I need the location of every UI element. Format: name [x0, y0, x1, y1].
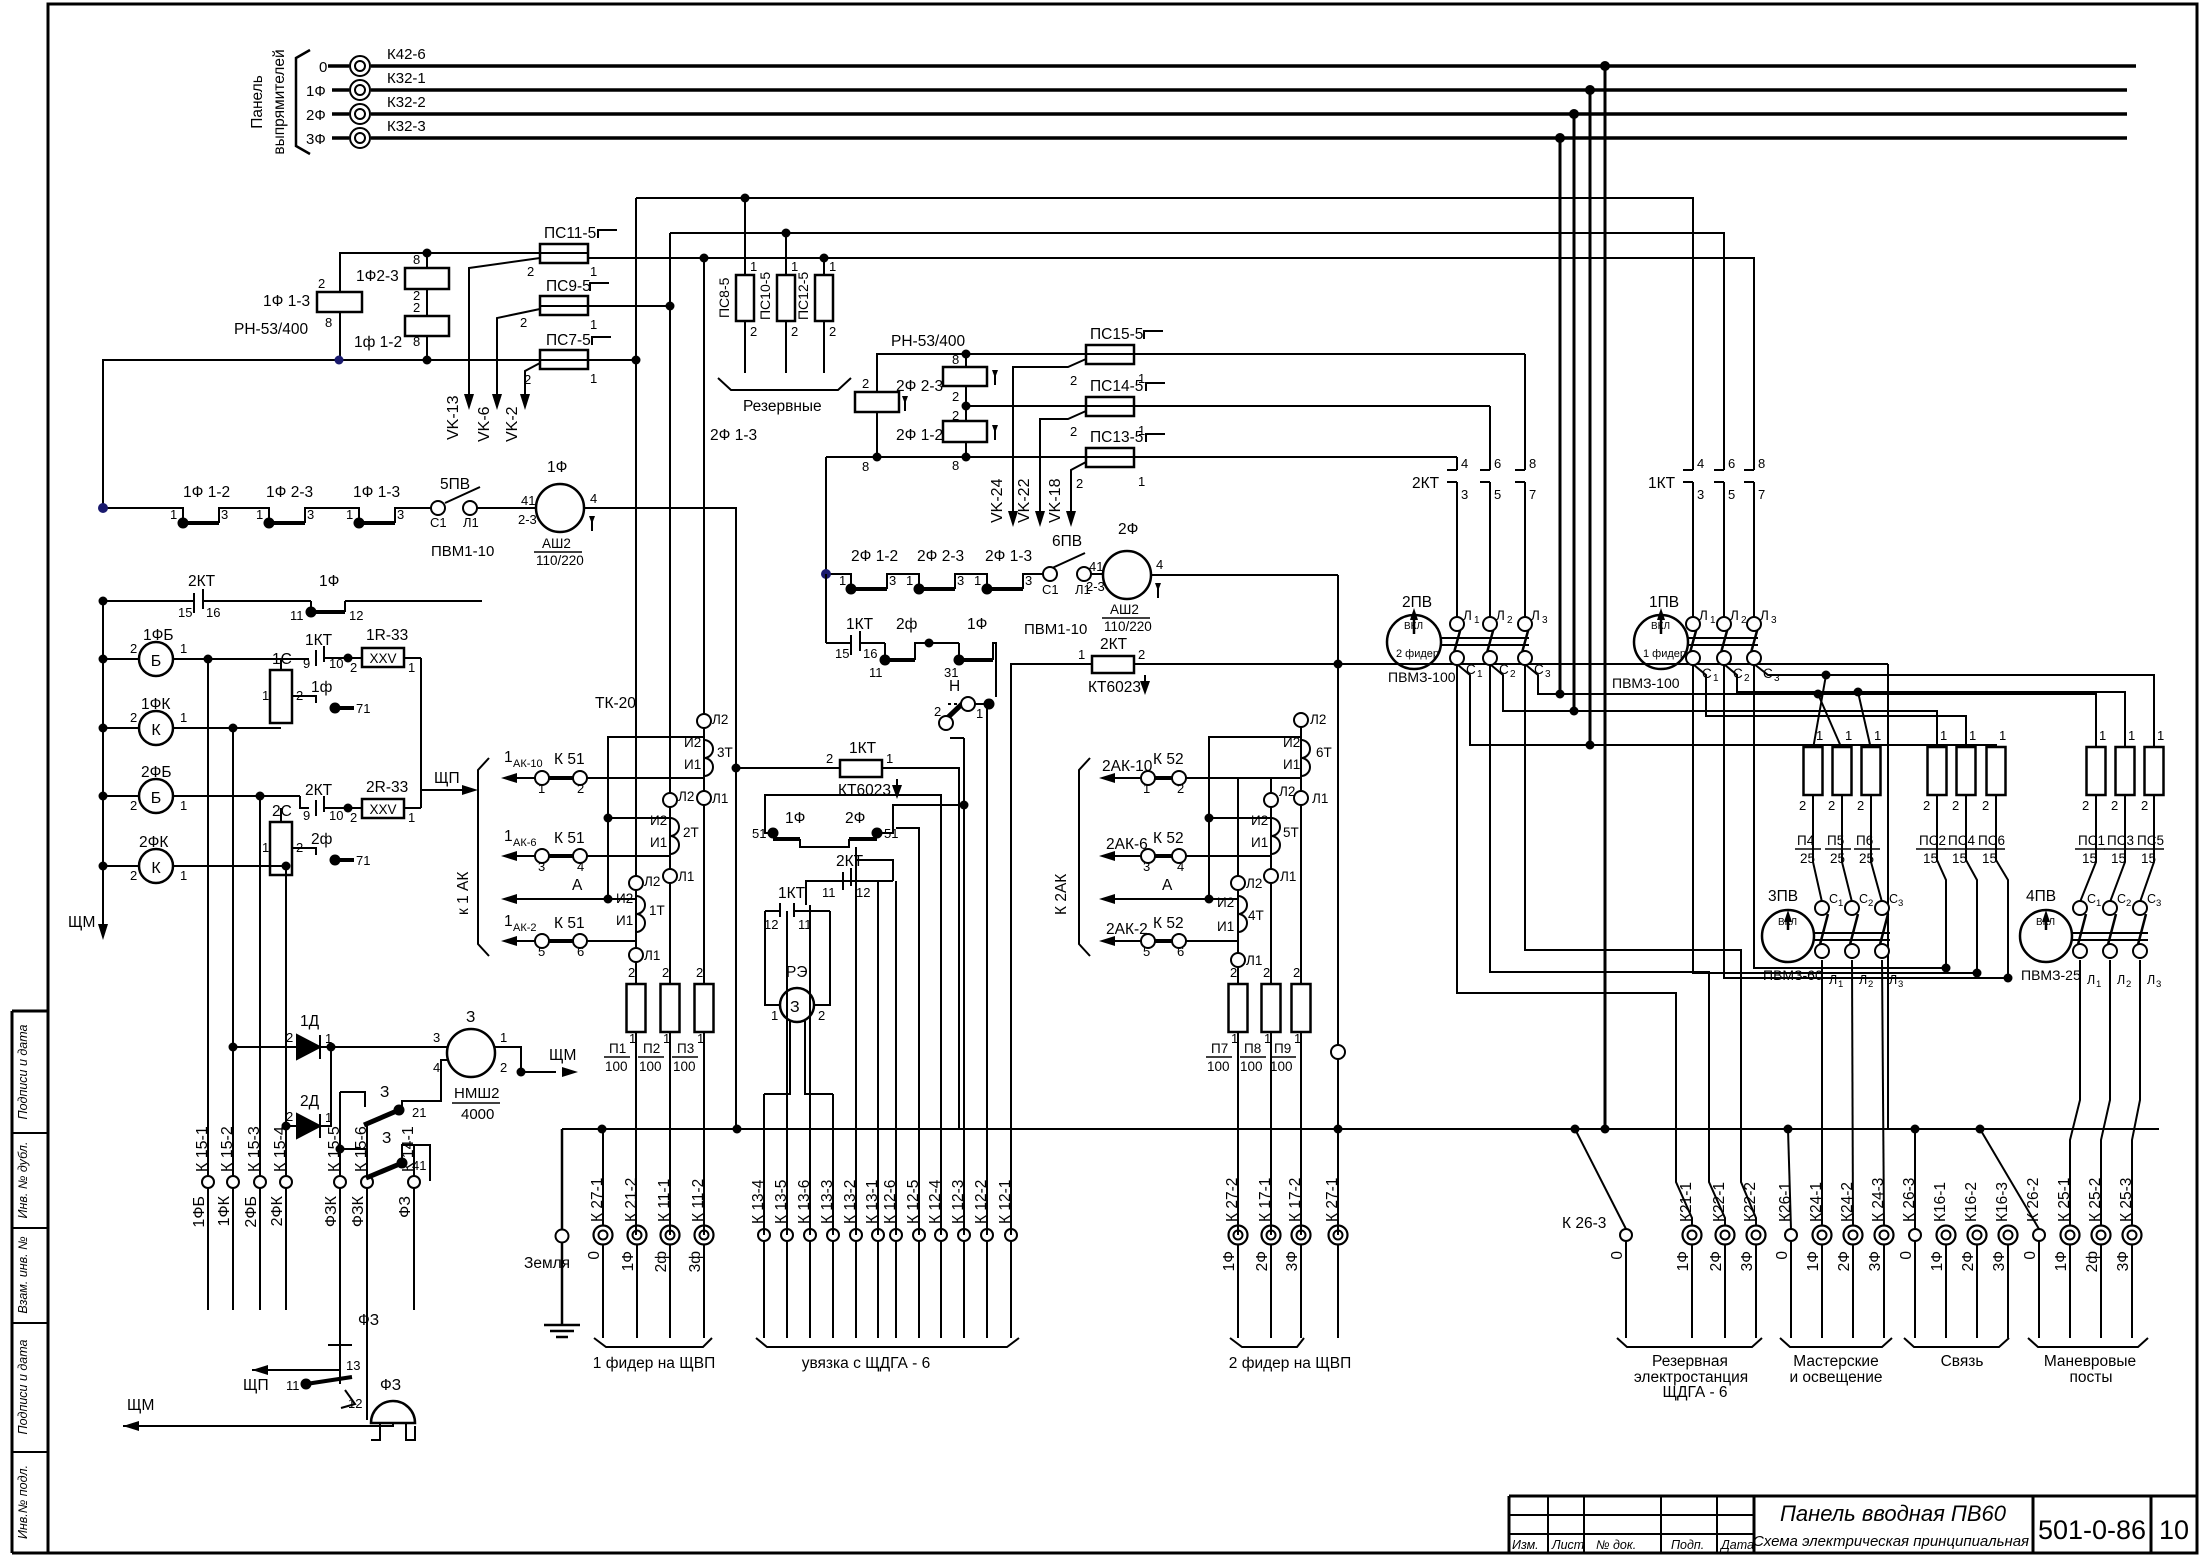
svg-text:2: 2	[520, 315, 527, 330]
fuse П5	[1833, 747, 1852, 795]
svg-text:К 24-3: К 24-3	[1870, 1178, 1887, 1222]
switch blade ПС13-5	[1071, 462, 1086, 515]
VK-13 arrow	[464, 394, 474, 410]
svg-text:1: 1	[1138, 423, 1145, 438]
svg-text:VK-22: VK-22	[1016, 478, 1033, 523]
svg-text:К 12-4: К 12-4	[927, 1179, 944, 1224]
svg-text:К 2АК: К 2АК	[1053, 874, 1070, 915]
svg-text:8: 8	[413, 334, 420, 349]
svg-text:XXV: XXV	[369, 651, 396, 666]
svg-text:К24-2: К24-2	[1839, 1182, 1856, 1222]
svg-text:К 11-1: К 11-1	[656, 1179, 673, 1222]
svg-text:АК-6: АК-6	[513, 837, 537, 849]
svg-text:2С: 2С	[272, 803, 292, 820]
svg-text:3Ф: 3Ф	[2115, 1251, 2132, 1271]
svg-text:2 фидер: 2 фидер	[1396, 648, 1439, 660]
svg-text:2: 2	[1263, 965, 1270, 980]
svg-text:Л: Л	[1496, 608, 1505, 623]
svg-text:К 12-6: К 12-6	[882, 1180, 899, 1224]
wire y258	[589, 258, 1754, 460]
svg-text:0: 0	[586, 1251, 603, 1260]
rail from y457	[825, 457, 827, 574]
ЩМ arrow	[98, 924, 108, 940]
К51 row 1АК-2	[587, 940, 636, 942]
svg-text:Связь: Связь	[1941, 1353, 1984, 1370]
svg-text:2: 2	[2126, 898, 2131, 909]
svg-text:И1: И1	[616, 913, 633, 928]
wire chain y574	[826, 574, 851, 589]
svg-text:РН-53/400: РН-53/400	[891, 333, 965, 350]
АШ2-2Ф drop column	[1337, 575, 1339, 1235]
svg-text:З: З	[382, 1130, 391, 1147]
svg-text:4Т: 4Т	[1248, 908, 1264, 923]
terminal 3Ф	[350, 128, 370, 148]
contact 2КТ 15-16	[193, 593, 195, 613]
link resistors	[420, 658, 422, 790]
svg-text:Л2: Л2	[644, 874, 660, 889]
svg-text:2КТ: 2КТ	[188, 573, 216, 590]
terminal 0	[350, 56, 370, 76]
svg-text:1: 1	[325, 1031, 332, 1046]
title block table	[1509, 1495, 2197, 1498]
svg-text:2: 2	[527, 264, 534, 279]
voltmeter АШ2 2Ф	[1103, 551, 1151, 599]
column К13-6	[809, 905, 811, 1235]
svg-text:Л: Л	[2087, 973, 2095, 987]
svg-text:3: 3	[1771, 615, 1777, 626]
wire y406	[966, 405, 1086, 407]
fuse ПС5	[2145, 747, 2164, 795]
svg-text:К 25-1: К 25-1	[2056, 1178, 2073, 1222]
svg-text:VK-13: VK-13	[445, 395, 462, 440]
contact 2КТ col3	[1524, 354, 1526, 470]
column К12-3	[963, 738, 965, 1235]
svg-text:3Т: 3Т	[717, 745, 733, 760]
svg-text:10: 10	[2159, 1515, 2189, 1545]
svg-text:2: 2	[952, 389, 959, 404]
svg-text:К 15-2: К 15-2	[219, 1126, 236, 1172]
group Маневровые	[1980, 1129, 2148, 1347]
ЩП arrow	[462, 785, 478, 795]
svg-text:12: 12	[856, 885, 870, 900]
fuse ПС11-5	[540, 244, 588, 263]
svg-text:К 12-1: К 12-1	[997, 1180, 1014, 1224]
svg-text:ПС4: ПС4	[1948, 833, 1975, 848]
svg-text:10: 10	[329, 808, 343, 823]
switch blade ПС15-5	[1013, 359, 1086, 515]
knife ФЗ	[339, 1355, 341, 1370]
fuse ПС13-5	[1086, 448, 1134, 467]
svg-text:ФЗК: ФЗК	[350, 1195, 367, 1227]
svg-text:9: 9	[303, 808, 310, 823]
column x1271	[1270, 777, 1272, 794]
fuse bottoms to ПВ switches	[1813, 795, 2154, 978]
relay 1ф1-2	[405, 316, 449, 336]
svg-text:1: 1	[1838, 898, 1843, 909]
svg-text:К 26-3: К 26-3	[1901, 1178, 1918, 1222]
relay 2Ф1-2	[943, 421, 987, 442]
svg-text:8: 8	[325, 315, 332, 330]
svg-text:1ф: 1ф	[311, 679, 333, 696]
svg-text:С: С	[1859, 892, 1868, 906]
svg-text:6ПВ: 6ПВ	[1052, 533, 1082, 550]
svg-text:1: 1	[590, 317, 597, 332]
svg-text:5: 5	[1728, 487, 1735, 502]
svg-text:3: 3	[1774, 673, 1780, 684]
svg-text:2: 2	[1744, 673, 1750, 684]
svg-text:5: 5	[1143, 944, 1150, 959]
svg-text:1: 1	[408, 660, 415, 675]
brace	[594, 1338, 712, 1347]
svg-text:К 52: К 52	[1153, 751, 1184, 768]
svg-text:К 27-1: К 27-1	[1324, 1178, 1341, 1222]
switch З-21	[340, 1092, 365, 1107]
wire y198 drop to ПС8-5	[744, 198, 746, 275]
group увязка	[756, 1241, 1019, 1347]
svg-text:ПС12-5: ПС12-5	[795, 272, 811, 320]
fuse ПС6	[1987, 747, 2006, 795]
svg-text:2Ф 2-3: 2Ф 2-3	[917, 548, 964, 565]
svg-text:11: 11	[286, 1378, 300, 1393]
svg-text:К32-2: К32-2	[387, 94, 426, 111]
column К12-2	[986, 704, 988, 1235]
svg-text:8: 8	[952, 352, 959, 367]
svg-text:посты: посты	[2069, 1369, 2112, 1386]
svg-text:1Ф: 1Ф	[306, 83, 326, 100]
svg-text:2: 2	[826, 751, 833, 766]
bus wire 1Ф	[332, 88, 349, 92]
switch 5ПВ	[445, 487, 480, 503]
wire АШ2 out to x736	[636, 508, 736, 768]
wire top y253	[340, 253, 589, 292]
blade wires to buses	[1452, 660, 1590, 745]
svg-text:1: 1	[1845, 728, 1852, 743]
column К13-2	[855, 847, 857, 1235]
svg-text:3Ф: 3Ф	[1991, 1251, 2008, 1271]
column К13-5	[786, 911, 788, 1235]
svg-text:Л: Л	[2147, 973, 2155, 987]
svg-text:1: 1	[590, 264, 597, 279]
svg-text:1: 1	[750, 259, 757, 274]
drop wire from bus 2Ф	[1573, 114, 1576, 711]
svg-text:КТ6023: КТ6023	[1088, 679, 1141, 696]
svg-text:К21-1: К21-1	[1678, 1182, 1695, 1222]
svg-text:1: 1	[262, 840, 269, 855]
svg-text:1ФК: 1ФК	[141, 696, 170, 713]
svg-text:2: 2	[1070, 424, 1077, 439]
svg-text:1: 1	[1999, 728, 2006, 743]
svg-text:1С: 1С	[272, 651, 292, 668]
svg-text:Панель: Панель	[249, 75, 266, 129]
rail x103	[102, 601, 104, 930]
svg-text:ПВМЗ-25: ПВМЗ-25	[2021, 967, 2081, 983]
svg-text:1: 1	[1138, 371, 1145, 386]
svg-text:2: 2	[818, 1008, 825, 1023]
switch blade ПС9-5	[497, 309, 540, 398]
svg-text:2Ф: 2Ф	[1254, 1251, 1271, 1271]
svg-text:ПВМЗ-60: ПВМЗ-60	[1763, 967, 1823, 983]
svg-text:1: 1	[408, 810, 415, 825]
svg-text:2: 2	[2082, 798, 2089, 813]
bus wire 2Ф	[332, 112, 349, 116]
svg-text:РЭ: РЭ	[786, 964, 807, 981]
svg-text:П8: П8	[1244, 1041, 1261, 1056]
svg-text:ТК-20: ТК-20	[595, 695, 636, 712]
svg-text:2ф: 2ф	[653, 1251, 670, 1273]
bottom bus wire	[562, 1128, 2159, 1130]
svg-text:4: 4	[1156, 557, 1163, 572]
svg-text:2: 2	[296, 840, 303, 855]
svg-text:2Ф 2-3: 2Ф 2-3	[896, 378, 943, 395]
svg-text:А: А	[572, 877, 583, 894]
svg-text:к 1 АК: к 1 АК	[455, 872, 472, 915]
svg-text:3: 3	[889, 573, 896, 588]
svg-text:1: 1	[180, 641, 187, 656]
svg-text:2: 2	[1293, 965, 1300, 980]
svg-text:41: 41	[1089, 559, 1103, 574]
svg-text:15: 15	[1952, 851, 1967, 866]
svg-text:1КТ: 1КТ	[305, 632, 333, 649]
wire y198	[636, 198, 1693, 460]
transformer 6Т	[1301, 740, 1310, 776]
svg-text:1Ф: 1Ф	[967, 616, 987, 633]
brace Резервные	[718, 378, 851, 390]
transformer 3Т	[704, 740, 713, 776]
group Мастерские	[1780, 1129, 1892, 1347]
К52 row 2АК-2	[1186, 940, 1238, 942]
svg-text:2: 2	[1952, 798, 1959, 813]
svg-text:5ПВ: 5ПВ	[440, 476, 470, 493]
svg-text:1: 1	[1264, 1031, 1271, 1046]
relay 1ФК	[139, 711, 173, 745]
relay 1ФБ	[139, 642, 173, 676]
svg-text:1: 1	[504, 828, 513, 845]
svg-text:3: 3	[2156, 979, 2161, 990]
svg-text:1: 1	[839, 573, 846, 588]
svg-text:8: 8	[862, 459, 869, 474]
terminal 2Ф	[350, 104, 370, 124]
svg-text:С: С	[2087, 892, 2096, 906]
svg-text:1ФК: 1ФК	[216, 1195, 233, 1226]
group Резервная	[1575, 1129, 1762, 1347]
svg-text:П1: П1	[609, 1041, 626, 1056]
fuse ПС12-5	[815, 275, 833, 321]
svg-text:6Т: 6Т	[1316, 745, 1332, 760]
svg-text:2: 2	[628, 965, 635, 980]
svg-text:С1: С1	[430, 515, 447, 530]
contact 2ф 71	[335, 858, 354, 862]
svg-text:100: 100	[1270, 1059, 1293, 1074]
svg-text:71: 71	[356, 853, 370, 868]
fuse ПС2	[1928, 747, 1947, 795]
svg-text:ФЗ: ФЗ	[358, 1312, 379, 1329]
svg-text:2: 2	[1868, 898, 1873, 909]
svg-text:1Ф: 1Ф	[1805, 1251, 1822, 1271]
svg-text:12: 12	[348, 1396, 362, 1411]
vertical columns К15	[207, 659, 209, 1176]
column x1238	[1237, 777, 1239, 877]
svg-text:Б: Б	[151, 790, 162, 807]
svg-text:ЩП: ЩП	[434, 770, 460, 787]
svg-text:2: 2	[1868, 979, 1873, 990]
С wires to groups	[1457, 664, 1692, 1226]
svg-text:С: С	[1499, 662, 1509, 677]
coil 1С	[270, 670, 292, 723]
К52 row 2АК-10	[1186, 777, 1301, 779]
svg-text:31: 31	[944, 665, 958, 680]
relay 2ФБ	[139, 779, 173, 813]
svg-text:4: 4	[1461, 456, 1468, 471]
ground symbol	[544, 1129, 580, 1337]
svg-text:Л1: Л1	[463, 515, 479, 530]
svg-text:2: 2	[286, 1030, 293, 1045]
svg-text:И2: И2	[650, 813, 667, 828]
svg-text:П3: П3	[677, 1041, 694, 1056]
svg-text:АК-10: АК-10	[513, 758, 543, 770]
svg-text:Лист: Лист	[1551, 1538, 1584, 1552]
STAIRCASE WIRES top middle	[589, 198, 1754, 460]
svg-text:1: 1	[697, 1031, 704, 1046]
fuse ПС4	[1957, 747, 1976, 795]
svg-text:1ПВ: 1ПВ	[1649, 594, 1679, 611]
svg-text:С: С	[2147, 892, 2156, 906]
svg-text:Л2: Л2	[678, 789, 694, 804]
switch bars	[851, 587, 887, 591]
svg-text:2: 2	[1177, 781, 1184, 796]
fuse П9	[1292, 984, 1311, 1032]
svg-text:1ф 1-2: 1ф 1-2	[354, 334, 402, 351]
svg-text:1: 1	[256, 507, 263, 522]
svg-text:1Ф: 1Ф	[620, 1251, 637, 1271]
svg-text:4: 4	[577, 859, 584, 874]
svg-text:З: З	[380, 1084, 389, 1101]
svg-text:2: 2	[1230, 965, 1237, 980]
blade wires to fuse bank	[1688, 660, 1966, 749]
svg-text:С: С	[1889, 892, 1898, 906]
svg-text:К 15-1: К 15-1	[194, 1126, 211, 1172]
svg-text:К 13-6: К 13-6	[796, 1180, 813, 1224]
svg-text:1: 1	[1474, 615, 1480, 626]
contact 2КТ col1	[1456, 457, 1458, 470]
svg-text:2АК-2: 2АК-2	[1106, 921, 1148, 938]
svg-text:2Ф: 2Ф	[1118, 521, 1138, 538]
svg-text:Л1: Л1	[678, 869, 694, 884]
contact 2КТ 11-12	[806, 881, 810, 905]
svg-text:100: 100	[1207, 1059, 1230, 1074]
svg-text:8: 8	[413, 252, 420, 267]
svg-text:1: 1	[180, 798, 187, 813]
svg-text:2КТ: 2КТ	[836, 853, 864, 870]
svg-text:7: 7	[1758, 487, 1765, 502]
svg-text:Л: Л	[1889, 973, 1897, 987]
svg-text:ЩП: ЩП	[243, 1377, 269, 1394]
svg-text:ПВМ1-10: ПВМ1-10	[431, 543, 494, 560]
svg-text:3: 3	[1461, 487, 1468, 502]
svg-text:1Ф: 1Ф	[1675, 1251, 1692, 1271]
svg-text:VK-2: VK-2	[504, 406, 521, 442]
contact 1КТ 9-10	[315, 650, 317, 666]
contact 1Ф	[959, 658, 993, 662]
svg-text:10: 10	[329, 656, 343, 671]
svg-text:1: 1	[1143, 781, 1150, 796]
group 1 фидер	[594, 1129, 712, 1347]
К51 row 1АК-10	[587, 777, 704, 779]
secondary wires 3Т	[608, 737, 704, 899]
svg-text:ЩМ: ЩМ	[549, 1047, 576, 1064]
svg-text:2: 2	[1076, 476, 1083, 491]
svg-text:Л: Л	[1463, 608, 1472, 623]
svg-text:1R-33: 1R-33	[366, 627, 408, 644]
drop wire from bus 1Ф	[1589, 90, 1592, 745]
svg-text:1: 1	[1969, 728, 1976, 743]
voltmeter АШ2 1Ф	[536, 484, 584, 532]
svg-text:2: 2	[829, 324, 836, 339]
svg-text:3Ф: 3Ф	[1867, 1251, 1884, 1271]
svg-text:1: 1	[1078, 647, 1085, 662]
svg-text:АШ2: АШ2	[542, 536, 571, 551]
svg-text:3ф: 3ф	[687, 1251, 704, 1273]
contact 2КТ 9-10	[315, 800, 317, 816]
TITLE BLOCK	[1509, 1496, 2197, 1553]
TOP BUSES	[249, 46, 2136, 1129]
svg-text:3ПВ: 3ПВ	[1768, 888, 1798, 905]
svg-text:Л1: Л1	[644, 948, 660, 963]
svg-text:ВКЛ: ВКЛ	[1404, 621, 1423, 632]
svg-text:К 25-2: К 25-2	[2087, 1178, 2104, 1222]
svg-text:РН-53/400: РН-53/400	[234, 321, 308, 338]
svg-text:2: 2	[1741, 615, 1747, 626]
svg-text:И1: И1	[650, 835, 667, 850]
svg-text:увязка с ЩДГА - 6: увязка с ЩДГА - 6	[802, 1355, 931, 1372]
svg-text:2Ф 1-3: 2Ф 1-3	[710, 427, 757, 444]
svg-text:И2: И2	[1283, 735, 1300, 750]
svg-text:2ф: 2ф	[2084, 1251, 2101, 1273]
fuse ПС8-5	[736, 275, 754, 321]
fuse ПС3	[2116, 747, 2135, 795]
ЩМ arrow line	[123, 1423, 393, 1426]
svg-text:Резервные: Резервные	[743, 398, 822, 415]
svg-text:1: 1	[1138, 474, 1145, 489]
contact 1Ф 11-12	[311, 610, 345, 614]
svg-text:21: 21	[412, 1105, 426, 1120]
svg-text:Мастерские: Мастерские	[1793, 1353, 1878, 1370]
svg-text:2Ф 1-2: 2Ф 1-2	[851, 548, 898, 565]
wire top y354	[877, 354, 1086, 392]
svg-text:К 12-3: К 12-3	[950, 1180, 967, 1224]
column К12-6	[895, 881, 897, 1235]
svg-text:9: 9	[303, 656, 310, 671]
svg-text:1Ф: 1Ф	[547, 459, 567, 476]
svg-text:2: 2	[318, 276, 325, 291]
VK-2 arrow	[520, 394, 530, 410]
svg-text:1: 1	[906, 573, 913, 588]
svg-text:НМШ2: НМШ2	[454, 1085, 499, 1102]
svg-text:1: 1	[1838, 979, 1843, 990]
svg-text:ВКЛ: ВКЛ	[1651, 621, 1670, 632]
svg-text:1: 1	[346, 507, 353, 522]
svg-text:К 27-2: К 27-2	[1224, 1178, 1241, 1222]
fuse П8	[1262, 984, 1281, 1032]
svg-text:3: 3	[433, 1030, 440, 1045]
svg-text:К 21-2: К 21-2	[623, 1178, 640, 1222]
svg-text:С: С	[2117, 892, 2126, 906]
svg-text:2Ф: 2Ф	[306, 107, 326, 124]
svg-text:И1: И1	[1251, 835, 1268, 850]
svg-text:К16-1: К16-1	[1932, 1182, 1949, 1222]
svg-text:100: 100	[673, 1059, 696, 1074]
svg-text:Панель вводная ПВ60: Панель вводная ПВ60	[1780, 1501, 2007, 1526]
svg-text:К 15-4: К 15-4	[272, 1126, 289, 1172]
